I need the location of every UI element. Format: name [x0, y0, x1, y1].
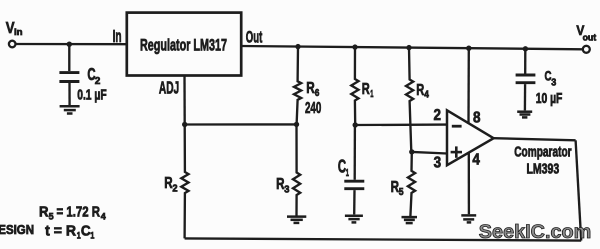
op-amp inverting input symbol [452, 125, 462, 128]
svg-text:240: 240 [305, 100, 321, 117]
op-amp non-inverting input symbol [451, 146, 462, 157]
junction pin8 supply tap [466, 46, 471, 51]
svg-text:10 µF: 10 µF [536, 91, 563, 107]
svg-text:Comparator: Comparator [514, 144, 572, 160]
ground below C2 [60, 106, 80, 113]
junction R4 bottom node B [409, 149, 414, 154]
svg-text:4: 4 [424, 89, 429, 100]
svg-text:C: C [81, 223, 91, 240]
svg-text:2: 2 [172, 184, 178, 195]
ground below pin 4 [461, 215, 476, 222]
junction C2 tap [67, 42, 72, 47]
svg-text:DESIGN: DESIGN [0, 223, 34, 237]
resistor R4 [406, 48, 413, 152]
svg-text:5: 5 [399, 187, 404, 198]
capacitor C2 [59, 73, 79, 82]
svg-text:SeekIC.com: SeekIC.com [479, 222, 592, 243]
wire ADJ node to R6 bottom node [185, 123, 297, 125]
svg-text:Out: Out [246, 27, 263, 46]
svg-text:3: 3 [284, 185, 290, 196]
svg-text:Regulator LM317: Regulator LM317 [140, 36, 227, 54]
wire C2 bottom plate to ground [68, 83, 70, 105]
svg-text:1: 1 [370, 89, 373, 100]
ground below R5 [402, 217, 418, 223]
resistor R6 [294, 47, 301, 125]
junction R6 top [295, 44, 300, 49]
junction C3 tap [523, 46, 528, 51]
wire ADJ pin down [183, 76, 186, 125]
svg-text:8: 8 [473, 109, 481, 126]
junction R1 bottom node A [353, 122, 358, 127]
wire C1 bottom plate to ground [353, 190, 356, 214]
svg-text:3: 3 [551, 78, 556, 89]
svg-text:0.1 µF: 0.1 µF [77, 86, 107, 103]
wire Vin to regulator In pin [16, 43, 127, 46]
resistor R3 [293, 124, 300, 215]
resistor R5 [408, 152, 415, 216]
ground below C1 [345, 216, 363, 223]
ground below C3 [517, 112, 532, 118]
svg-text:R: R [306, 80, 315, 97]
svg-text:1: 1 [90, 230, 95, 241]
svg-text:3: 3 [434, 154, 442, 171]
resistor R2 [181, 125, 188, 239]
svg-text:ADJ: ADJ [159, 78, 179, 98]
svg-text:5: 5 [49, 212, 55, 223]
ground below R3 [287, 217, 306, 223]
regulator U1 box [127, 13, 241, 76]
terminal Vout [583, 46, 590, 53]
svg-text:1: 1 [346, 167, 349, 179]
capacitor C3 [516, 75, 536, 83]
wire pin 8 supply [467, 48, 470, 124]
wire C3 bottom plate to ground [524, 84, 527, 110]
junction R4 top [406, 45, 411, 50]
svg-text:out: out [583, 33, 597, 43]
junction R1 top [352, 44, 357, 49]
wire node B to op-amp pin 3 [412, 152, 447, 154]
svg-text:R: R [39, 204, 49, 221]
wire output down right side [576, 140, 582, 240]
terminal Vin [9, 41, 16, 48]
wire junction to C2 top plate [68, 44, 70, 71]
svg-text:R: R [362, 81, 370, 98]
junction ADJ node [182, 122, 187, 127]
svg-text:2: 2 [434, 107, 442, 124]
resistor R1 [351, 47, 358, 125]
svg-text:t = R: t = R [45, 223, 76, 240]
op-amp U2 LM393 triangle [447, 110, 494, 165]
svg-text:4: 4 [101, 212, 107, 223]
svg-text:in: in [14, 27, 23, 38]
svg-text:LM393: LM393 [527, 161, 560, 177]
junction R6 bottom R3 top [294, 122, 299, 127]
svg-text:4: 4 [472, 151, 480, 168]
wire node A to op-amp pin 2 [355, 123, 447, 126]
wire C3 tap down [524, 49, 526, 74]
wire pin 4 to ground [468, 152, 470, 214]
wire comparator output [494, 138, 576, 140]
capacitor C1 [344, 181, 364, 189]
wire bottom feedback rail to R2 [185, 238, 582, 240]
svg-text:6: 6 [315, 88, 320, 99]
wire node A down to C1 [354, 125, 357, 180]
wire regulator Out rail to Vout [241, 46, 583, 49]
svg-text:In: In [113, 26, 122, 46]
svg-text:= 1.72 R: = 1.72 R [57, 204, 101, 221]
